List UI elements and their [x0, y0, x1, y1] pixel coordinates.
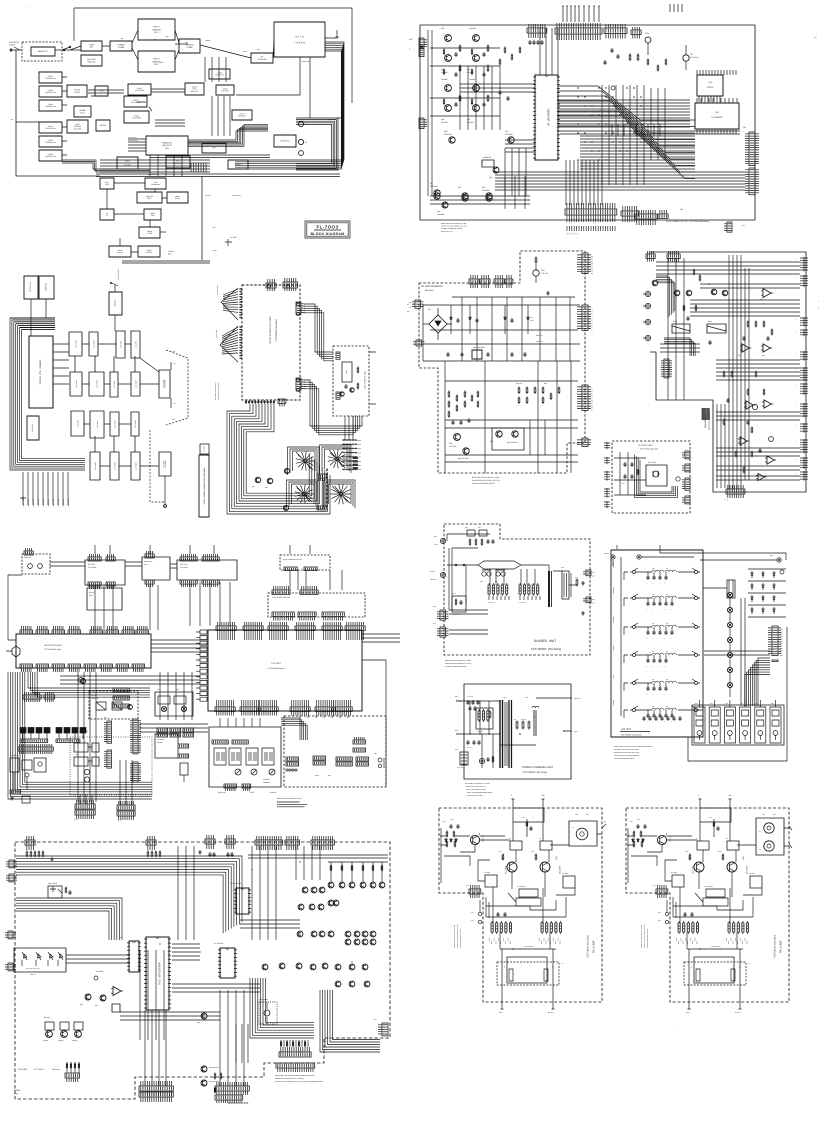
svg-text:(No.6xxx): (No.6xxx): [52, 1068, 60, 1071]
svg-text:RESISTOR VALUES ARE IN Ω. 1/4W: RESISTOR VALUES ARE IN Ω. 1/4W): [454, 925, 456, 948]
svg-text:CT: CT: [591, 400, 593, 402]
svg-text:10 10 10 10: 10 10 10 10: [519, 602, 526, 604]
svg-text:R1 10: R1 10: [685, 851, 689, 853]
svg-text:C: C: [647, 721, 648, 723]
svg-text:+V: +V: [591, 327, 593, 329]
svg-text:R2 10: R2 10: [531, 851, 535, 853]
svg-text:Q21: Q21: [437, 210, 440, 213]
svg-text:AUTO TUNER RF UNIT: AUTO TUNER RF UNIT: [364, 371, 367, 389]
svg-text:2SC2879: 2SC2879: [559, 866, 562, 874]
svg-text:RESISTOR VALUES ARE IN Ω. 1/4W: RESISTOR VALUES ARE IN Ω. 1/4W): [641, 925, 643, 948]
svg-text:L51: L51: [652, 679, 655, 681]
svg-text:SWR AMP: SWR AMP: [31, 423, 34, 432]
svg-text:Q16: Q16: [482, 186, 485, 189]
svg-text:CPU UNIT: CPU UNIT: [18, 1068, 28, 1071]
svg-text:VC-2/VR-2 UNIT: VC-2/VR-2 UNIT: [638, 444, 654, 447]
svg-text:L12: L12: [666, 568, 669, 570]
svg-text:C: C: [665, 721, 666, 723]
svg-text:C: C: [671, 721, 672, 723]
svg-text:25OV: 25OV: [530, 320, 534, 322]
svg-text:PTT: PTT: [433, 623, 436, 625]
svg-text:LPF UNIT: LPF UNIT: [180, 563, 188, 566]
svg-text:Q09: Q09: [441, 118, 444, 121]
svg-text:UNLESS OTHERWISE NOTED.: UNLESS OTHERWISE NOTED.: [460, 928, 462, 948]
svg-text:COUPLER: COUPLER: [258, 58, 267, 61]
svg-text:10 10 10 10: 10 10 10 10: [488, 602, 495, 604]
svg-text:+V: +V: [591, 310, 593, 312]
svg-text:OUT: OUT: [773, 814, 776, 816]
svg-text:T U N E R: T U N E R: [294, 41, 305, 44]
svg-text:TH1 THERMAL: TH1 THERMAL: [517, 886, 526, 888]
svg-text:Q01: Q01: [665, 833, 668, 836]
svg-text:C: C: [653, 638, 654, 640]
svg-text:FL-7OO3: FL-7OO3: [316, 225, 338, 230]
svg-text:F27743OO (No.5xxx): F27743OO (No.5xxx): [621, 734, 642, 737]
svg-text:X24C01: X24C01: [707, 86, 714, 89]
svg-text:2SA4867: 2SA4867: [441, 78, 448, 81]
svg-text:WITH NO SIGNAL INPUT: WITH NO SIGNAL INPUT: [467, 795, 483, 797]
svg-text:CT: CT: [591, 407, 593, 409]
svg-text:CNTRL: CNTRL: [74, 91, 80, 94]
svg-text:2SC1967: 2SC1967: [441, 121, 448, 124]
svg-text:TH1 THERMAL: TH1 THERMAL: [704, 886, 713, 888]
svg-text:Q15: Q15: [458, 186, 461, 189]
svg-text:PA-2: PA-2: [154, 63, 159, 66]
svg-text:C: C: [671, 638, 672, 640]
svg-text:JO1: JO1: [455, 749, 458, 751]
svg-text:C: C: [653, 583, 654, 585]
svg-text:RLO1: RLO1: [452, 593, 456, 595]
svg-text:+V: +V: [591, 322, 593, 324]
svg-text:TA1: TA1: [504, 965, 506, 968]
svg-text:F277O8OO (No.5xxx): F277O8OO (No.5xxx): [531, 647, 561, 651]
svg-text:C1 C2 C3: C1 C2 C3: [467, 696, 473, 698]
svg-text:RL2 BIAS: RL2 BIAS: [562, 873, 568, 875]
svg-text:↓ ↓: ↓ ↓: [28, 6, 31, 9]
svg-text:GND: GND: [433, 606, 436, 608]
svg-text:PA-2: PA-2: [592, 599, 595, 601]
svg-text:HD6301Y0: HD6301Y0: [162, 142, 173, 145]
svg-text:(PTT) JO1: (PTT) JO1: [457, 767, 463, 769]
svg-text:COMB: COMB: [118, 46, 125, 49]
svg-text:R2 10: R2 10: [718, 851, 722, 853]
svg-text:PA-1 UNIT: PA-1 UNIT: [780, 940, 783, 953]
svg-text:UNLESS OTHERWISE NOTED.: UNLESS OTHERWISE NOTED.: [647, 928, 649, 948]
svg-text:POWER COMBINER UNIT: POWER COMBINER UNIT: [522, 766, 554, 769]
svg-text:METER: METER: [100, 124, 107, 127]
svg-text:Q03: Q03: [742, 856, 745, 860]
svg-text:TA1: TA1: [691, 965, 693, 968]
svg-text:R4O: R4O: [522, 817, 525, 819]
svg-text:PO ADJ: PO ADJ: [163, 461, 166, 467]
svg-text:2SC4O8B: 2SC4O8B: [505, 133, 513, 136]
svg-text:C: C: [653, 694, 654, 696]
svg-text:OUT: OUT: [586, 814, 589, 816]
svg-text:TO3: TO3: [561, 567, 564, 569]
svg-text:uPD78C10: uPD78C10: [162, 144, 173, 147]
svg-text:JO2 RF: JO2 RF: [430, 571, 435, 573]
svg-text:HPF-2: HPF-2: [153, 58, 160, 61]
svg-text:1: 1: [818, 300, 819, 303]
svg-text:+V: +V: [591, 308, 593, 310]
svg-text:BAND: BAND: [357, 444, 361, 446]
svg-text:Q10: Q10: [467, 118, 470, 121]
svg-text:Q17: Q17: [690, 53, 693, 56]
svg-text:C7B: C7B: [443, 821, 446, 823]
svg-text:COUPLER: COUPLER: [163, 379, 166, 388]
svg-text:RL2 BIAS: RL2 BIAS: [749, 873, 755, 875]
svg-text:BAND: BAND: [357, 452, 361, 454]
svg-text:O.O47: O.O47: [450, 819, 454, 821]
svg-text:C: C: [659, 638, 660, 640]
svg-text:HPF-2: HPF-2: [153, 26, 160, 29]
svg-text:2SA4867: 2SA4867: [469, 27, 476, 30]
svg-text:OUT: OUT: [592, 603, 595, 605]
svg-text:TMB OUT: TMB OUT: [430, 579, 436, 581]
svg-text:2SA715C-O: 2SA715C-O: [690, 56, 700, 59]
svg-text:R4O: R4O: [709, 817, 712, 819]
svg-text:C: C: [665, 583, 666, 585]
svg-text:PA-2 UNIT: PA-2 UNIT: [593, 940, 596, 953]
svg-text:↓: ↓: [816, 32, 817, 35]
svg-text:C: C: [671, 609, 672, 611]
svg-text:+V: +V: [591, 330, 593, 332]
svg-text:L41: L41: [652, 651, 655, 653]
svg-text:C11 O.1: C11 O.1: [467, 747, 472, 749]
svg-text:CT: CT: [591, 395, 593, 397]
svg-text:PS UNIT F2949OOO: PS UNIT F2949OOO: [421, 285, 443, 288]
svg-text:PROTECTOR UNIT: PROTECTOR UNIT: [44, 644, 63, 647]
svg-text:Q03: Q03: [555, 856, 558, 860]
svg-text:TO1: TO1: [480, 581, 483, 583]
svg-text:C: C: [665, 609, 666, 611]
svg-text:DIVIDER UNIT: DIVIDER UNIT: [534, 639, 556, 643]
svg-text:(No.8xxx): (No.8xxx): [425, 289, 434, 292]
svg-text:CO1: CO1: [465, 527, 468, 529]
svg-text:F277O6OO (No.2xxx): F277O6OO (No.2xxx): [774, 935, 777, 958]
svg-text:C: C: [653, 721, 654, 723]
svg-text:CPU: CPU: [165, 147, 170, 150]
svg-text:BAND: BAND: [357, 469, 361, 471]
svg-text:J02: J02: [743, 126, 746, 129]
svg-text:CO2: CO2: [478, 527, 481, 529]
svg-text:XTAL: XTAL: [645, 32, 649, 35]
svg-text:ANT: ANT: [770, 555, 773, 557]
svg-text:C: C: [647, 609, 648, 611]
svg-text:1/2 HYBRID: 1/2 HYBRID: [132, 117, 142, 120]
svg-text:DIODES ARE TYPE 1SS97 UNLESS O: DIODES ARE TYPE 1SS97 UNLESS OTHERWISE N…: [614, 746, 653, 748]
svg-text:RESISTOR VALUES ARE IN Ω. 1/1O: RESISTOR VALUES ARE IN Ω. 1/1OW): [465, 783, 490, 785]
svg-text:RL1 BIAS: RL1 BIAS: [484, 872, 490, 874]
svg-text:C: C: [647, 694, 648, 696]
svg-text:F2771OOO (No.9xxx): F2771OOO (No.9xxx): [640, 448, 658, 451]
svg-text:CPU UNIT: CPU UNIT: [271, 662, 281, 665]
svg-text:L52: L52: [666, 679, 669, 681]
svg-text:F277O5OO: F277O5OO: [34, 1068, 44, 1071]
svg-text:TK14O588CP: TK14O588CP: [711, 116, 724, 119]
svg-text:OUT: OUT: [592, 576, 595, 578]
svg-text:C: C: [647, 666, 648, 668]
svg-text:C: C: [659, 666, 660, 668]
svg-text:L21: L21: [652, 594, 655, 596]
svg-text:CAPACITOR VALUES ARE IN μF. 5O: CAPACITOR VALUES ARE IN μF. 5Ov): [457, 924, 459, 948]
svg-text:BND: BND: [780, 655, 783, 657]
svg-text:Q01: Q01: [441, 27, 444, 30]
svg-text:RF IN: RF IN: [434, 544, 438, 546]
svg-text:C: C: [659, 694, 660, 696]
svg-text:SWR: SWR: [89, 43, 94, 46]
svg-text:L32: L32: [666, 623, 669, 625]
svg-text:4-6: 4-6: [742, 224, 745, 227]
svg-text:2SA4867: 2SA4867: [469, 78, 476, 81]
svg-text:BLOCK DIAGRAM: BLOCK DIAGRAM: [310, 232, 344, 236]
svg-text:CAPACITOR VALUES ARE IN μF. 5O: CAPACITOR VALUES ARE IN μF. 5Ov): [644, 924, 646, 948]
svg-text:BAND: BAND: [357, 448, 361, 450]
svg-text:RESISTOR VALUES ARE IN: RESISTOR VALUES ARE IN: [215, 382, 217, 400]
svg-text:UNLESS OTHERWISE NOTED.: UNLESS OTHERWISE NOTED.: [614, 758, 635, 760]
svg-text:+V: +V: [591, 325, 593, 327]
svg-text:METER SW: METER SW: [280, 140, 290, 143]
svg-text:F277O4OO(No.1xxx): F277O4OO(No.1xxx): [44, 648, 61, 651]
svg-text:C7B: C7B: [630, 821, 633, 823]
svg-text:CT: CT: [591, 410, 593, 412]
svg-text:COMB: COMB: [187, 46, 194, 49]
svg-text:2SC2120Y: 2SC2120Y: [444, 133, 453, 136]
svg-text:PWR SW: PWR SW: [88, 60, 96, 63]
svg-text:CT: CT: [591, 388, 593, 390]
svg-text:CAPACITOR VALUES ARE IN μF.: CAPACITOR VALUES ARE IN μF.: [465, 786, 487, 788]
svg-text:Q19: Q19: [444, 130, 447, 133]
svg-text:L62: L62: [666, 706, 669, 708]
svg-text:TO2: TO2: [525, 697, 528, 699]
svg-text:4: 4: [818, 307, 819, 310]
svg-text:2SC4O8B: 2SC4O8B: [482, 189, 490, 192]
svg-text:C: C: [659, 721, 660, 723]
svg-text:TP1: TP1: [471, 912, 474, 914]
svg-text:F477O8OO (No.98xx): F477O8OO (No.98xx): [275, 319, 278, 341]
svg-text:HYBRID: HYBRID: [117, 43, 125, 46]
svg-text:RL1 BIAS: RL1 BIAS: [671, 872, 677, 874]
svg-text:T3: T3: [748, 963, 750, 965]
svg-text:RF: RF: [604, 821, 606, 823]
svg-text:PA-1: PA-1: [154, 31, 159, 34]
svg-text:TP2: TP2: [658, 920, 661, 922]
svg-text:L22: L22: [666, 594, 669, 596]
svg-text:1/2 HYBRID: 1/2 HYBRID: [135, 89, 145, 92]
svg-text:L11: L11: [652, 568, 654, 570]
svg-text:LPF UNIT: LPF UNIT: [621, 728, 632, 731]
svg-text:O.O47: O.O47: [637, 819, 641, 821]
svg-text:PWR IN: PWR IN: [604, 553, 609, 555]
svg-text:CAPACITOR VALUES ARE: CAPACITOR VALUES ARE: [218, 383, 220, 400]
svg-text:+V: +V: [591, 320, 593, 322]
svg-text:TP1: TP1: [658, 912, 661, 914]
svg-text:TO2: TO2: [495, 581, 498, 583]
svg-text:TO1: TO1: [503, 697, 506, 699]
svg-text:C: C: [647, 638, 648, 640]
svg-text:2SC4O8B: 2SC4O8B: [430, 185, 438, 188]
svg-text:A U T O: A U T O: [295, 35, 304, 38]
svg-text:CT: CT: [591, 405, 593, 407]
svg-text:RC UNIT: RC UNIT: [88, 563, 95, 566]
svg-text:C: C: [665, 638, 666, 640]
svg-text:SW BUF: SW BUF: [114, 299, 117, 307]
svg-text:C: C: [653, 609, 654, 611]
svg-text:(100W): (100W): [9, 44, 15, 47]
svg-text:Q13: Q13: [489, 176, 492, 179]
svg-text:CT: CT: [591, 390, 593, 392]
svg-text:5O 1OW: 5O 1OW: [521, 719, 527, 721]
svg-text:AUTO TUNER CPU UNIT F477O8OO(: AUTO TUNER CPU UNIT F477O8OO(No.98xx): [666, 220, 709, 223]
svg-text:C: C: [659, 583, 660, 585]
svg-text:L42: L42: [666, 651, 669, 653]
svg-text:C: C: [659, 609, 660, 611]
svg-text:CT: CT: [591, 398, 593, 400]
svg-text:J03: J03: [680, 208, 683, 211]
svg-text:Q4/89CDP I/O: Q4/89CDP I/O: [547, 109, 550, 126]
svg-text:Q01: Q01: [478, 833, 481, 836]
svg-text:Q12: Q12: [505, 130, 508, 133]
svg-text:HD63O1YOP CPU: HD63O1YOP CPU: [158, 962, 161, 985]
svg-text:C: C: [653, 666, 654, 668]
svg-text:LAMP SW: LAMP SW: [45, 283, 48, 292]
svg-text:PA-1: PA-1: [592, 572, 595, 574]
svg-text:+V: +V: [591, 315, 593, 317]
svg-text:AT/OFF SW: AT/OFF SW: [29, 282, 32, 292]
svg-text:L31: L31: [652, 623, 655, 625]
svg-text:CT: CT: [591, 402, 593, 404]
svg-text:2SC2879: 2SC2879: [746, 866, 749, 874]
svg-text:DRIVER: DRIVER: [152, 28, 161, 31]
svg-text:UNLESS OTHERWISE NOTED.: UNLESS OTHERWISE NOTED.: [466, 789, 487, 791]
svg-text:+V: +V: [591, 313, 593, 315]
svg-text:F2771BOO (No.3xxx): F2771BOO (No.3xxx): [587, 935, 590, 958]
svg-text:EXCITER IN: EXCITER IN: [9, 41, 20, 44]
svg-text:D01: D01: [428, 308, 431, 311]
svg-text:F277O5OO(No.6xxx): F277O5OO(No.6xxx): [268, 667, 285, 670]
svg-text:C: C: [665, 666, 666, 668]
svg-text:ANT: ANT: [172, 418, 175, 421]
svg-text:BAND: BAND: [357, 440, 361, 442]
svg-text:R1 10: R1 10: [498, 851, 502, 853]
svg-text:TLR-1O2: TLR-1O2: [541, 272, 548, 275]
svg-text:Q08: Q08: [467, 68, 470, 71]
svg-text:AUTO TUNER CONNECTION DIAGRAM: AUTO TUNER CONNECTION DIAGRAM: [203, 467, 206, 504]
svg-text:L61: L61: [652, 706, 655, 708]
svg-text:AUTO TUNER CPU UNIT: AUTO TUNER CPU UNIT: [269, 316, 272, 344]
svg-text:TP2: TP2: [471, 920, 474, 922]
svg-text:CNTL: CNTL: [80, 111, 85, 114]
svg-text:C: C: [647, 583, 648, 585]
svg-text:R11: R11: [514, 719, 517, 721]
svg-text:C: C: [665, 694, 666, 696]
svg-text:BAND ATT: BAND ATT: [38, 50, 48, 53]
svg-text:1/2 HYBRID: 1/2 HYBRID: [131, 101, 141, 104]
svg-text:CT: CT: [591, 393, 593, 395]
svg-text:Q05: Q05: [449, 442, 452, 445]
svg-text:F277O9OO (No.4xxx): F277O9OO (No.4xxx): [523, 771, 547, 774]
svg-text:TUNER CPU HD63O1: TUNER CPU HD63O1: [39, 359, 42, 385]
svg-text:4-5: 4-5: [814, 36, 817, 39]
svg-text:T3: T3: [561, 963, 563, 965]
svg-text:+V: +V: [591, 318, 593, 320]
